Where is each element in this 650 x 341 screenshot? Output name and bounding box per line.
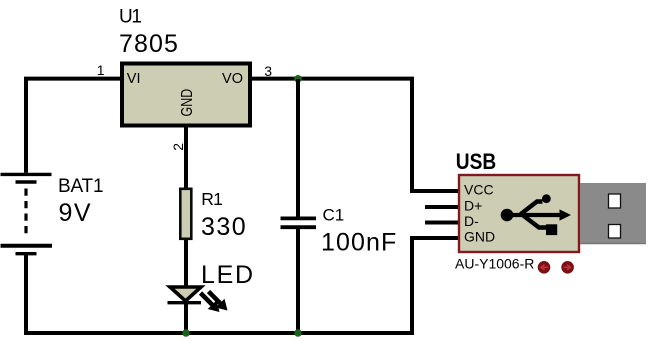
- svg-text:VO: VO: [222, 71, 243, 87]
- mounting pad 2: [561, 261, 574, 274]
- svg-text:7805: 7805: [119, 30, 179, 58]
- wire USB GND pin to bottom rail: [412, 238, 461, 333]
- svg-text:D+: D+: [464, 198, 482, 214]
- svg-text:VCC: VCC: [464, 182, 494, 198]
- wire R1 to LED: [184, 240, 188, 287]
- svg-text:BAT1: BAT1: [58, 176, 103, 197]
- USB contact square 1: [609, 194, 621, 208]
- USB trident icon: [501, 194, 571, 235]
- svg-text:100nF: 100nF: [321, 229, 397, 257]
- USB plug shield: [580, 183, 646, 244]
- svg-text:2: 2: [170, 143, 186, 151]
- svg-text:9V: 9V: [59, 199, 93, 227]
- wire LED to bottom rail: [184, 303, 188, 333]
- svg-text:R1: R1: [201, 189, 222, 209]
- resistor R1: [180, 189, 191, 239]
- wire C1 bottom branch: [296, 228, 300, 333]
- svg-text:LED: LED: [201, 261, 255, 289]
- op-amp U1 regulator box: [122, 64, 250, 126]
- svg-text:AU-Y1006-R: AU-Y1006-R: [455, 256, 534, 272]
- svg-text:330: 330: [201, 213, 247, 241]
- svg-text:VI: VI: [127, 71, 141, 87]
- capacitor C1: [281, 218, 317, 227]
- svg-text:C1: C1: [323, 205, 345, 224]
- wire battery top to U1 pin 1: [26, 79, 121, 173]
- node junction C1 bottom: [294, 329, 302, 337]
- svg-text:GND: GND: [179, 89, 197, 117]
- connector J1 USB body: [459, 175, 579, 252]
- wire USB D- stub: [425, 221, 461, 225]
- wire USB D+ stub: [425, 205, 461, 209]
- svg-text:GND: GND: [464, 229, 495, 245]
- USB contact square 2: [609, 225, 621, 239]
- svg-text:USB: USB: [456, 150, 496, 175]
- wire bottom rail: [24, 331, 414, 335]
- node junction LED bottom: [182, 329, 190, 337]
- mounting pad 1: [538, 261, 551, 274]
- wire U1 pin 3 to right vertical and USB VCC: [252, 79, 461, 191]
- wire U1 pin 2 to R1: [184, 125, 188, 189]
- wire battery bottom to ground rail: [24, 254, 28, 333]
- LED D1: [168, 287, 228, 312]
- battery BAT1: [1, 174, 53, 253]
- svg-text:D-: D-: [464, 213, 479, 229]
- svg-text:U1: U1: [119, 7, 141, 28]
- wire C1 top branch: [296, 79, 300, 217]
- svg-text:1: 1: [97, 62, 105, 78]
- node junction at C1 top: [294, 75, 302, 83]
